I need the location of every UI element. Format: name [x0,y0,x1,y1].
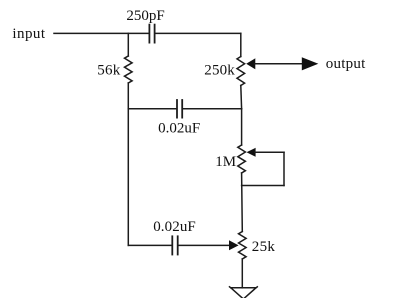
resistor R1 56k [125,56,133,83]
svg-text:250k: 250k [204,63,235,79]
wire R3 wiper loop right segment [255,151,284,153]
capacitor C3 0.02uF plates [172,236,177,254]
svg-text:250pF: 250pF [126,8,164,24]
wire R3 bottom through node F down to potentiometer R4 [241,173,244,232]
ground symbol [230,287,258,298]
R4 wiper arrow [229,240,239,250]
output arrowhead [302,57,319,70]
svg-text:56k: 56k [97,63,121,79]
svg-text:input: input [12,26,45,42]
svg-text:25k: 25k [252,239,276,255]
wire R3 wiper loop down segment [283,152,285,185]
wire R2 bottom to middle junction node D [240,86,243,109]
potentiometer R2 250k [237,57,245,86]
svg-text:0.02uF: 0.02uF [158,121,200,137]
wire R1 bottom to node C and down to node E [127,83,129,245]
R2 wiper arrow [246,58,255,69]
wire R3 wiper loop left segment to node F [242,185,284,187]
wire C2 to node D [183,108,242,110]
wire node B down to potentiometer R2 [240,33,242,56]
wire R4 bottom to ground [241,259,243,288]
svg-text:1M: 1M [215,154,236,170]
svg-text:0.02uF: 0.02uF [153,219,196,235]
svg-text:output: output [326,56,366,72]
capacitor C1 250pF plates [149,25,154,43]
capacitor C2 0.02uF plates [177,100,182,118]
wire node D down to potentiometer R3 [241,109,243,145]
potentiometer R3 1M [238,145,246,173]
potentiometer R4 25k [239,232,247,260]
wire R2 wiper to output arrow [255,63,304,65]
wire input to capacitor C1 [54,32,149,34]
R3 wiper arrow [247,148,256,157]
wire middle node C to capacitor C2 [128,108,176,110]
junction node A (top wire to R1 branch) [127,33,129,56]
wire C1 to top-right corner node B [155,32,240,34]
wire C3 to R4 wiper arrow [179,244,230,246]
wire node E to capacitor C3 [128,244,171,246]
